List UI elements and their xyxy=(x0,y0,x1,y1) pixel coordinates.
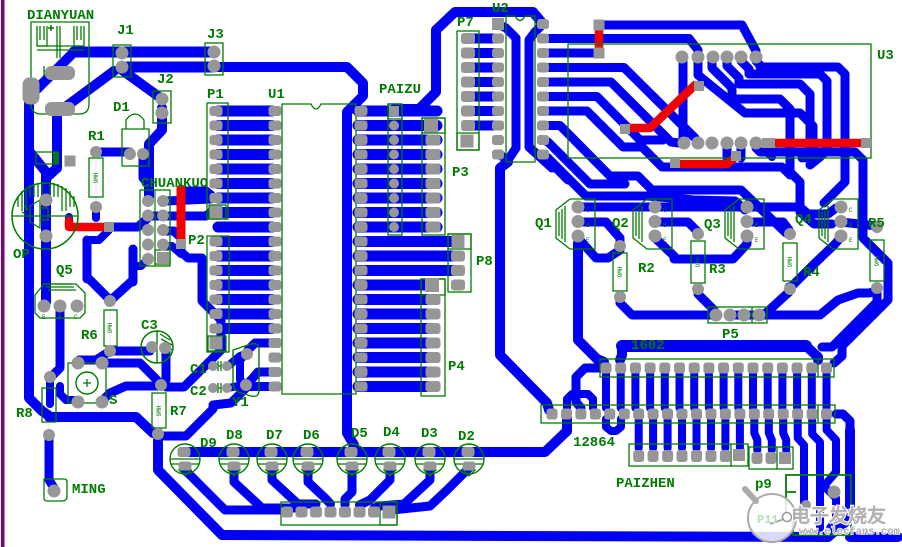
svg-text:D7: D7 xyxy=(266,428,283,444)
pad R8-2 xyxy=(43,429,55,441)
connector CHUANKUO box xyxy=(140,190,170,266)
wire S left down xyxy=(60,386,79,400)
svg-text:R3: R3 xyxy=(709,262,726,278)
svg-text:R6: R6 xyxy=(81,328,98,344)
S plus xyxy=(83,379,91,387)
wire D8 fan xyxy=(234,468,302,508)
pads P8 xyxy=(452,235,465,248)
wire Q1C-Q2C xyxy=(578,203,655,212)
connector p9pads box xyxy=(749,447,793,469)
pad red top via xyxy=(594,20,605,31)
wire red top to P1 area xyxy=(183,191,211,195)
P3 pin1 box xyxy=(422,118,445,133)
pads P2 xyxy=(210,237,223,247)
wire U3 pad1 vertical xyxy=(679,61,688,143)
svg-text:J1: J1 xyxy=(117,23,134,39)
DIANYUAN pad1 tick xyxy=(44,66,60,76)
pad DIANYUAN 1 xyxy=(45,66,75,80)
svg-text:PAIZU: PAIZU xyxy=(379,82,421,98)
pad Y1-1 xyxy=(241,348,253,360)
wire 12864-PAIZHEN comb xyxy=(635,420,643,448)
wire LED anode bus xyxy=(185,418,567,452)
wire CHUANKUO bottom down xyxy=(129,249,138,282)
pad Y1-2 xyxy=(240,379,252,391)
wire U2 to bar E xyxy=(529,147,552,168)
wire DIANYUAN pad to left rail down to R8 xyxy=(29,52,74,415)
wire x87 vertical xyxy=(83,240,92,279)
pad via red2 xyxy=(176,239,186,249)
pad red right via xyxy=(861,138,871,148)
P1 pin8 box xyxy=(209,205,226,219)
node R6 xyxy=(109,305,111,348)
crystal Y1 outline xyxy=(233,344,259,397)
wire P5 row xyxy=(730,311,758,320)
switch S outline xyxy=(68,363,106,403)
svg-text:B: B xyxy=(663,222,667,229)
pad OP- xyxy=(40,230,53,243)
svg-text:J3: J3 xyxy=(207,27,224,43)
wire pad to R8 xyxy=(46,381,54,404)
wire U3 pad4 loop xyxy=(727,61,810,158)
svg-text:P8: P8 xyxy=(476,254,493,270)
transistor Q3 outline xyxy=(725,199,764,249)
svg-text:9MH: 9MH xyxy=(874,255,881,266)
svg-text:OP: OP xyxy=(13,247,30,263)
wire fan3 zigzag xyxy=(824,420,836,528)
svg-text:D3: D3 xyxy=(421,426,438,442)
svg-text:R8: R8 xyxy=(16,406,33,422)
pad C2-2 xyxy=(222,383,232,393)
wire S to R7 xyxy=(103,363,157,386)
wire Q1E down to 1602 pad1 xyxy=(578,243,604,362)
wire bar E xyxy=(662,167,790,175)
wire U2 to bar F xyxy=(543,155,568,180)
pad DIANYUAN left xyxy=(23,78,40,105)
pad J3-2 xyxy=(208,60,221,73)
pads Q1-Q4 xyxy=(572,201,585,214)
connector P5 box xyxy=(708,307,767,323)
svg-text:p9: p9 xyxy=(755,477,772,493)
connector DIANYUAN outline xyxy=(31,22,89,114)
wire U1 left pin stubs xyxy=(218,106,272,117)
wire R3 to P5 xyxy=(698,289,716,315)
svg-text:9MH: 9MH xyxy=(107,322,114,333)
wire via to CHUANKUO xyxy=(113,216,163,227)
svg-text:D6: D6 xyxy=(303,428,320,444)
svg-text:U1: U1 xyxy=(268,87,285,103)
pads P7 xyxy=(461,33,475,44)
wire bundle r3 to red via xyxy=(549,49,593,58)
connector 12864 box xyxy=(541,405,835,423)
connector J1 box xyxy=(113,45,131,77)
wire D1 down xyxy=(143,158,149,185)
pad R1-1 xyxy=(90,146,102,158)
wire CHUANKUO to P1 sq xyxy=(166,212,211,216)
svg-text:C: C xyxy=(663,207,667,214)
pads U2 left xyxy=(492,18,504,30)
LED outlines D9-D2 xyxy=(170,444,200,474)
wire Q3C-Q4C xyxy=(752,207,841,214)
wire U3 pad6 to right v1 xyxy=(756,61,845,203)
pads PAIZHEN xyxy=(633,450,644,462)
wire OP pads xyxy=(41,200,51,236)
wire Q2E to Q3E xyxy=(655,238,747,259)
svg-text:B: B xyxy=(755,222,759,229)
pads 12864 xyxy=(547,409,558,420)
wire D6 fan xyxy=(308,468,331,504)
wire U2 bottom merge xyxy=(500,148,516,160)
svg-text:E: E xyxy=(586,237,590,244)
pads LED D9-D2 xyxy=(178,447,191,457)
red jumper U3 top xyxy=(595,28,604,50)
wire R4 to P5 xyxy=(759,287,789,315)
wire DIANYUAN pad2 down xyxy=(46,112,57,178)
svg-text:12864: 12864 xyxy=(573,435,615,451)
pad R6-2 xyxy=(104,345,116,357)
pad J2-2 xyxy=(156,107,169,120)
red jumper under U3 xyxy=(680,158,734,164)
CHUANKUO pin9 box xyxy=(155,250,170,264)
svg-text:S: S xyxy=(109,393,117,409)
DIANYUAN prong right xyxy=(74,26,84,46)
wire D5 fan xyxy=(345,468,352,505)
pads U1 left xyxy=(269,106,282,116)
pad R7-2 xyxy=(152,428,164,440)
pads resistors R2-R5 xyxy=(614,240,626,252)
pads 1602 xyxy=(601,363,612,374)
wire P7 to U2 stubs xyxy=(470,34,498,44)
wire S to R7 top bus xyxy=(103,386,160,400)
pad via red1 xyxy=(104,222,114,232)
svg-text:PAIZHEN: PAIZHEN xyxy=(616,476,675,492)
wire C2 to Y1 xyxy=(228,385,246,388)
pads CHUANKUO xyxy=(142,195,154,207)
svg-text:C3: C3 xyxy=(141,318,158,334)
pad red diag via2 xyxy=(620,124,630,134)
P7 sq box xyxy=(457,133,479,150)
svg-text:D2: D2 xyxy=(458,429,475,445)
wire D2 fan xyxy=(392,468,469,510)
svg-text:Q3: Q3 xyxy=(704,217,721,233)
pads PAIZU xyxy=(389,106,399,116)
wire Q2C-Q3C xyxy=(655,203,747,212)
wire red via to U3 pad6 top xyxy=(599,25,756,55)
connector P1 box xyxy=(207,103,228,219)
PAIZU pin1 box xyxy=(388,104,402,119)
svg-text:D9: D9 xyxy=(200,436,217,452)
wire U3 pad3 loop to Q4 bus xyxy=(712,61,832,224)
wire D7 fan xyxy=(272,468,316,504)
svg-text:D8: D8 xyxy=(226,428,243,444)
svg-text:9MH: 9MH xyxy=(156,405,163,416)
wire R6 to S xyxy=(79,351,110,360)
wire bottom ground bus xyxy=(222,535,828,537)
resistor R5 body xyxy=(870,240,884,281)
svg-text:D5: D5 xyxy=(351,426,368,442)
wire U2 r2 to U3 pad2 top xyxy=(549,39,698,55)
watermark xyxy=(745,489,900,542)
wire bar G to Q3 xyxy=(648,196,745,210)
pad J1-2 xyxy=(116,61,129,74)
svg-text:R2: R2 xyxy=(638,261,655,277)
wire CHUANKUO bottom elbow xyxy=(135,259,148,266)
wire branch to OP column xyxy=(29,151,46,240)
svg-text:R7: R7 xyxy=(170,404,187,420)
capacitor C2 symbol xyxy=(218,383,228,393)
wire U2 inner left xyxy=(498,24,516,148)
svg-text:J2: J2 xyxy=(157,72,174,88)
node R1 body xyxy=(95,156,97,203)
svg-text:R5: R5 xyxy=(868,216,885,232)
svg-text:www.elecfans.com: www.elecfans.com xyxy=(799,526,900,538)
pad red diag via xyxy=(694,81,704,91)
pad R8-1 xyxy=(44,371,56,383)
pad DIANYUAN 2 xyxy=(45,102,75,116)
pad red bottom via xyxy=(594,48,605,59)
wire R7 to Y1 via C2 xyxy=(164,388,246,436)
transistor Q2 outline xyxy=(633,199,672,249)
C3 hatch xyxy=(160,334,172,355)
wire U3 pad5b stub xyxy=(737,148,746,158)
Q5 hatch xyxy=(44,284,76,290)
svg-text:MING: MING xyxy=(72,482,106,498)
connector p9 outline xyxy=(786,475,851,535)
pads P1 xyxy=(210,106,223,116)
IC U2 body xyxy=(506,16,535,162)
wire R8 top bus to R7 bottom xyxy=(49,417,158,434)
svg-text:D4: D4 xyxy=(383,425,400,441)
pads U2 right xyxy=(537,19,549,29)
svg-text:C1: C1 xyxy=(190,362,207,378)
wire CHUANKUO to P1 row7 xyxy=(166,199,211,201)
wire CHUANKUO r4 xyxy=(166,246,181,254)
svg-text:Y1: Y1 xyxy=(232,395,249,411)
wire Y1 to U1 p18 xyxy=(248,343,272,350)
resistor R3 body xyxy=(691,241,705,283)
pads U3 bottom row xyxy=(678,137,691,150)
pad MING xyxy=(48,485,61,498)
wire bus vertical to 12864 end xyxy=(836,414,850,430)
connector P7 box xyxy=(457,31,479,150)
wire J1 to DIANYUAN pad2 xyxy=(58,71,114,108)
board keepout edge left xyxy=(1,0,5,547)
svg-text:B: B xyxy=(58,314,62,321)
wire D4 fan xyxy=(360,468,391,505)
wire hat 12864 pads 2-4 xyxy=(567,394,593,408)
wire J3 long net down middle xyxy=(213,67,363,452)
wire bundle r6 diag xyxy=(549,97,663,141)
connector P4 box xyxy=(421,279,445,396)
wire J1-J3 bottom xyxy=(122,62,213,73)
wire Q1B to R2 xyxy=(578,222,620,244)
pads p9 three xyxy=(752,452,763,464)
connector J2 box xyxy=(153,91,171,123)
wire Q3B to R4 xyxy=(747,222,789,230)
svg-text:D1: D1 xyxy=(113,100,130,116)
svg-text:C2: C2 xyxy=(190,384,207,400)
wire Q5 B down to pad xyxy=(51,310,60,377)
wire U2 inner right xyxy=(529,24,543,147)
connector PAIZU box xyxy=(388,104,402,235)
wire VCC J1-J3 top xyxy=(74,47,213,58)
wire U3 pad2t right loop xyxy=(698,61,813,158)
svg-text:R4: R4 xyxy=(803,265,820,281)
connector MING box xyxy=(44,479,67,501)
wire 1602-12864 comb xyxy=(602,372,610,408)
wire Q4B to R5 xyxy=(841,222,877,226)
svg-text:C: C xyxy=(755,207,759,214)
wire to R6 V-left xyxy=(87,277,108,298)
wire bundle r8 to bar F xyxy=(549,126,652,191)
red jumper diag xyxy=(627,85,695,128)
wire U3 pad6b right v2 down to 1602 xyxy=(756,148,888,363)
pads U1 right xyxy=(355,106,368,116)
P8 pin1 box xyxy=(448,234,471,249)
wire bottom bus right end xyxy=(850,532,898,542)
connector J3 box xyxy=(205,43,223,75)
wire R7 down to bottom bus diag xyxy=(158,440,222,535)
pads P5 xyxy=(710,309,723,322)
wire R2 to P5 xyxy=(620,297,716,315)
svg-text:B: B xyxy=(586,222,590,229)
pad p9 inner xyxy=(828,486,841,499)
svg-text:P3: P3 xyxy=(452,165,469,181)
pad C2-1 xyxy=(208,383,218,393)
wire 12864 to p9 pad xyxy=(798,420,806,505)
svg-text:E: E xyxy=(663,237,667,244)
svg-text:E: E xyxy=(849,237,853,244)
IC U3 outline xyxy=(568,44,871,158)
wire OP to Q5 E xyxy=(41,240,51,302)
resistor R7 body xyxy=(152,393,166,428)
wire bundle r10 to bar G xyxy=(543,155,648,197)
svg-text:1602: 1602 xyxy=(631,338,665,354)
wire CHUANKUO to red pad xyxy=(166,231,181,238)
wire bar F to R4 xyxy=(652,190,786,233)
wire R6 to C3 xyxy=(110,347,150,356)
wire bundle r7 to bar E xyxy=(549,111,662,167)
pad P1-8 xyxy=(210,206,223,219)
wire J2 down to CHUANKUO xyxy=(149,108,162,197)
wire bottom bus up right xyxy=(828,430,850,537)
wire bundle r5 diag to U3 pad1b xyxy=(549,82,679,143)
svg-text:P11: P11 xyxy=(757,513,779,527)
svg-text:B: B xyxy=(849,222,853,229)
connector P2 box xyxy=(207,236,229,352)
pads U3 top row xyxy=(676,51,689,64)
svg-text:R1: R1 xyxy=(88,129,105,145)
pad R1-2 xyxy=(90,201,102,213)
svg-text:C: C xyxy=(74,314,78,321)
wire Q4E diag xyxy=(790,237,841,288)
connector PAIZHEN box xyxy=(629,444,748,466)
wire R5 down diag to bus xyxy=(822,293,877,347)
resistor R1 body xyxy=(89,158,103,197)
IC U1 body xyxy=(282,104,356,394)
pad J1-1 xyxy=(116,47,129,60)
wire U1 p20 stub xyxy=(240,382,272,391)
wire U1 right rows10-12 to P8 xyxy=(358,236,458,247)
wire D9 to header xyxy=(185,470,283,510)
pad D1-2 xyxy=(137,148,149,160)
wire U3 pad5 loop xyxy=(741,61,827,165)
wire U1 right rows13-20 to P4 xyxy=(358,280,432,291)
wire U loop 12864 xyxy=(606,419,621,431)
transistor Q1 outline xyxy=(556,199,595,249)
svg-text:C: C xyxy=(849,207,853,214)
wire OP right xyxy=(65,217,73,223)
connector 1602 box xyxy=(600,359,834,377)
pad OP+ xyxy=(40,194,53,207)
DIANYUAN prong left xyxy=(37,26,47,46)
capacitor C1 symbol xyxy=(218,361,228,371)
pad R7-1 xyxy=(155,379,167,391)
wire pad to x87 xyxy=(90,230,109,240)
wire P5 to R5 bottom xyxy=(759,291,877,315)
wire Q1E to R2 top xyxy=(578,238,620,258)
pad P2-8 xyxy=(210,337,223,350)
pad p9 inner2 xyxy=(801,500,811,510)
svg-text:9MH: 9MH xyxy=(93,172,100,183)
wire R8 to MING xyxy=(49,435,54,491)
svg-text:CHUANKUO: CHUANKUO xyxy=(141,176,208,192)
svg-text:P1: P1 xyxy=(207,87,224,103)
connector P6 box xyxy=(281,502,397,525)
OP hatch xyxy=(18,183,74,211)
resistor R6 body xyxy=(104,310,117,346)
svg-text:Q4: Q4 xyxy=(795,212,812,228)
LED D1 outline xyxy=(122,114,149,166)
resistor R4 body xyxy=(783,243,797,281)
pad D via xyxy=(65,156,76,167)
wire U2 to 12864 pad1 xyxy=(500,162,549,410)
wire 1602 pad1 to 12864 pad3 xyxy=(576,368,606,408)
buzzer OP outline xyxy=(12,183,78,249)
pad C1-2 xyxy=(222,361,232,371)
wire to R6 V-right xyxy=(110,280,133,301)
node R7 xyxy=(157,390,159,431)
wire U2 pin1 to PAIZU pin1 xyxy=(394,12,543,109)
red jumper U3 bottom row xyxy=(776,139,864,148)
pad red via3 xyxy=(670,158,680,168)
wire fan2 xyxy=(812,420,820,528)
svg-text:P2: P2 xyxy=(188,233,205,249)
resistor R8 body xyxy=(42,388,56,422)
OP speaker icon xyxy=(22,200,48,228)
wire R1 bottom stub xyxy=(92,207,100,218)
pads bottom header xyxy=(281,507,293,518)
resistor R2 body xyxy=(613,253,627,291)
diode D outline xyxy=(36,152,58,164)
svg-text:Q2: Q2 xyxy=(612,216,629,232)
wire R1 to D1 xyxy=(96,148,130,157)
svg-text:P7: P7 xyxy=(457,15,474,31)
pad R6-1 xyxy=(104,295,116,307)
wire Y1 loop xyxy=(240,354,246,385)
wire bundle r9 xyxy=(543,140,625,184)
wire Q2B to R3 xyxy=(655,222,699,233)
pads P3 xyxy=(424,119,438,133)
pad C3-2 xyxy=(159,342,171,354)
wire 1602 top bus xyxy=(622,340,806,352)
svg-text:U2: U2 xyxy=(492,1,509,17)
wire J1 to J2 xyxy=(122,70,162,99)
wire red pad stub xyxy=(767,148,772,157)
pad C3-1 xyxy=(146,341,158,353)
svg-text:C: C xyxy=(586,207,590,214)
connector P8 box xyxy=(448,234,471,292)
wire U1 right pin stubs rows1-9 to PAIZU/P3 xyxy=(358,106,437,117)
